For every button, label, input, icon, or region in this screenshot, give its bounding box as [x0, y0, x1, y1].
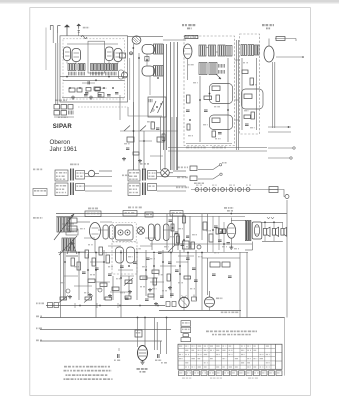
trimmer box 4	[54, 111, 60, 116]
node mc1	[133, 130, 135, 132]
svg-text:SIPAR: SIPAR	[53, 124, 73, 130]
label ECH 81 Fu	[182, 24, 184, 26]
wire vertical x79	[78, 252, 80, 300]
output transformer primary	[245, 220, 248, 240]
wire return y252	[58, 252, 248, 254]
capacitor C25	[192, 267, 196, 269]
wire vertical bus x139	[138, 53, 140, 170]
resistor R30	[140, 276, 147, 280]
resistor R14	[251, 112, 255, 119]
extra dots mid	[78, 252, 80, 254]
note line 2	[64, 370, 67, 372]
link h y262	[90, 261, 104, 263]
margin label 1	[36, 303, 38, 305]
wire em84 col1	[137, 318, 139, 348]
bus wire y317	[40, 317, 285, 319]
ground g4	[69, 295, 71, 297]
ground g7	[129, 290, 131, 292]
wire top bus right	[128, 36, 164, 38]
resistor R1b	[86, 88, 91, 92]
resistor R35	[85, 297, 92, 300]
wire link BC y100	[235, 99, 240, 101]
wire band2 l4	[157, 190, 186, 192]
terminal T1	[285, 195, 289, 199]
arrow B1	[216, 74, 221, 79]
tuning gang	[137, 227, 144, 234]
detector comp 1	[175, 234, 180, 245]
extra links mid	[62, 223, 74, 225]
cap on bottom bus 2	[115, 92, 118, 94]
el84 ground	[230, 246, 232, 248]
wire x176 down	[176, 117, 178, 170]
resistor R1c	[95, 88, 100, 92]
wire link BC y60	[235, 59, 240, 61]
tube V2 half a	[106, 47, 114, 61]
ferrite rod coil La	[57, 217, 64, 232]
node B3	[227, 109, 229, 111]
test point circle	[130, 52, 133, 55]
wire T4 link	[206, 47, 209, 49]
table outer frame	[178, 344, 282, 369]
coil unit box band1 top	[76, 171, 85, 180]
node n3	[153, 265, 155, 267]
wire vertical x137	[136, 254, 138, 300]
contact tick	[243, 187, 245, 192]
tube V3 osc	[132, 36, 141, 44]
table legend stack	[181, 321, 191, 327]
ground g8	[149, 288, 151, 290]
wire bottom bus y151	[168, 150, 267, 152]
tick bus2	[96, 303, 98, 308]
wire link BC y120	[235, 119, 240, 121]
ferrite arrow	[54, 214, 74, 240]
dial lamp La4	[221, 188, 225, 192]
label row1 end	[222, 162, 224, 164]
link h y246	[108, 245, 121, 247]
dial lamp La1	[195, 188, 199, 192]
capacitor C22	[168, 261, 172, 263]
switch bus y131	[120, 130, 178, 132]
wire el84 col	[201, 214, 203, 240]
dial lamp La3	[212, 188, 216, 192]
dashed enclosure D	[112, 242, 137, 275]
wire vert x174	[173, 42, 175, 170]
capacitor Cm1	[156, 127, 159, 129]
wire row2	[198, 178, 213, 180]
ground g6	[109, 294, 111, 296]
link h y252	[70, 251, 86, 253]
table column lines	[183, 344, 185, 369]
margin mark c	[33, 217, 36, 219]
wire grid bus A	[60, 76, 128, 78]
fuse symbol	[269, 187, 278, 193]
resistor R32	[210, 262, 220, 267]
spk marks	[267, 217, 270, 219]
loop3 comp	[244, 94, 252, 99]
transformer bars W2	[70, 183, 72, 196]
wire stub y127	[268, 126, 291, 128]
resistor R27	[88, 279, 95, 283]
wire vert x170	[170, 42, 172, 170]
dial lamp La5	[229, 188, 233, 192]
wire spk down	[252, 242, 254, 251]
wire vertical x104	[103, 250, 105, 300]
label box band2 lower	[128, 183, 140, 196]
wire AVC L	[128, 107, 162, 116]
wire to terminal	[282, 190, 285, 197]
node b1	[132, 47, 134, 49]
wire x172 down	[171, 117, 173, 170]
tube V1 pins	[66, 61, 68, 64]
wire el84 v1	[212, 216, 214, 252]
margin mark a	[33, 169, 35, 171]
wire mid right x247	[246, 252, 248, 318]
IF coil T4c	[218, 45, 225, 56]
trimmer disc 2	[125, 230, 130, 235]
coil T3b	[154, 66, 164, 77]
table row lines	[178, 347, 275, 349]
grid resistor pair	[219, 229, 222, 234]
coil box Lc	[68, 218, 77, 223]
resistor R28	[100, 283, 107, 287]
coil unit box band1 low	[76, 184, 85, 191]
wire stub y148	[268, 147, 293, 149]
coil ticks T5	[218, 64, 220, 68]
label EM 84 Fu	[137, 368, 140, 370]
ratio detector box	[148, 97, 166, 117]
resistor R33	[222, 262, 230, 267]
wire vertical x154	[153, 254, 155, 300]
svg-text:Jahr 1961: Jahr 1961	[50, 146, 78, 153]
resistor Rm1	[151, 122, 155, 129]
rectifier tube EZ80	[205, 297, 215, 307]
wire el84 top	[231, 220, 245, 222]
tube V11b	[127, 247, 135, 263]
wire bus A2	[63, 79, 125, 81]
label band2 top	[140, 163, 143, 165]
component box S1	[127, 137, 134, 142]
output transformer secondary	[249, 220, 251, 240]
ground bottom mid	[155, 302, 157, 304]
tick bus1	[74, 303, 76, 308]
speaker horn LS2	[263, 229, 266, 236]
resistor R15	[244, 115, 251, 119]
trimmer box 2	[61, 105, 67, 110]
resistor R18	[183, 216, 186, 223]
fm nodes	[146, 59, 148, 61]
label box ferrite	[66, 229, 78, 235]
wire row1	[198, 169, 213, 171]
bus wire y329	[40, 329, 171, 331]
resistor R24	[92, 258, 96, 266]
transformer bars W3	[142, 169, 144, 181]
table title	[206, 331, 209, 333]
contact tick	[217, 187, 219, 192]
wire mid right x207	[207, 258, 209, 295]
dial lamp strip	[191, 189, 282, 191]
wire vert x177	[177, 42, 179, 170]
IF coil T5b	[209, 63, 217, 75]
wire vert x166	[166, 44, 168, 150]
switch arm S1b	[140, 126, 146, 132]
wire left drop x46	[45, 28, 47, 71]
node a1	[66, 76, 68, 78]
node m2	[183, 239, 185, 241]
contact tick	[234, 187, 236, 192]
wire band2 l2	[157, 176, 186, 178]
coil comb b	[78, 72, 80, 76]
value labels scatter	[66, 224, 68, 225]
table bottom boxes	[179, 371, 185, 376]
speaker rail bottom	[262, 240, 283, 242]
link h y256b	[178, 255, 194, 257]
bottom comp row extra	[66, 289, 70, 293]
winding box Wb	[78, 64, 85, 71]
margin label 2	[36, 316, 39, 318]
ground em84	[142, 361, 144, 363]
trimmer disc 1	[118, 230, 123, 235]
label row1	[177, 167, 180, 169]
loop2 comp	[212, 118, 220, 123]
note line 1	[64, 366, 67, 368]
labels inside B	[188, 64, 190, 65]
ground gm2	[139, 159, 141, 161]
dashed enclosure B	[184, 36, 235, 146]
node bus2	[166, 317, 168, 319]
contact tick	[226, 187, 228, 192]
capacitor C30	[117, 354, 119, 358]
label EL84 above2	[227, 210, 230, 212]
ground g2	[90, 96, 92, 98]
label box ECH 81 mid	[85, 211, 101, 217]
margin label 3	[36, 328, 38, 330]
capacitor C19	[133, 261, 137, 263]
switch symbol row2	[190, 176, 197, 181]
lamp labels	[196, 185, 199, 186]
resistor R1	[69, 88, 75, 92]
resistor R16	[171, 224, 174, 231]
capacitor C8	[245, 123, 249, 125]
label box band1	[55, 170, 68, 181]
speaker LS1	[252, 222, 262, 239]
enclosure A inner dashed	[63, 39, 125, 99]
resistor Rm2	[162, 134, 165, 141]
diode D1	[151, 101, 157, 113]
tube V4b envelope	[142, 66, 155, 76]
dipole arrow 2 ticks	[78, 30, 81, 32]
antenna hook right	[58, 26, 61, 33]
resistor R38	[216, 228, 219, 234]
comp on bus 2	[172, 302, 176, 307]
wire left column x63	[63, 251, 65, 300]
ferrite rod coil Ld	[69, 238, 75, 251]
wire vertical x121	[120, 250, 122, 300]
coil unit box band2 top	[148, 171, 157, 180]
ground g5	[89, 293, 91, 295]
tube V2 dashes	[107, 51, 112, 53]
capacitor C12	[181, 243, 185, 245]
tube V10c half	[164, 224, 170, 241]
wire x144 down	[143, 131, 145, 170]
ground gm1	[123, 157, 125, 159]
node el1	[212, 229, 214, 231]
tube V1 dashes	[65, 51, 70, 53]
wire x120 down	[119, 95, 121, 120]
node B1	[209, 93, 211, 95]
IF coil T6b	[248, 45, 254, 56]
winding box Wd	[98, 64, 104, 71]
tube V10b half	[155, 224, 160, 241]
feedback loop 3	[242, 89, 264, 109]
ground g1	[72, 96, 74, 98]
wire right col down	[286, 200, 288, 318]
wire em84 col2	[144, 318, 146, 348]
contact tick	[200, 187, 202, 192]
tube V2 pins	[108, 61, 110, 64]
res label y87	[94, 87, 101, 90]
tube V5	[183, 44, 192, 59]
wire band2 l3	[157, 185, 186, 187]
diode D2	[158, 101, 164, 113]
label box af	[170, 211, 183, 217]
IF coil T4a	[199, 45, 206, 56]
wire vertical x65	[64, 252, 66, 300]
wire vertical x96	[95, 252, 97, 298]
coil T3a	[154, 44, 164, 54]
table right tall cells	[275, 352, 282, 354]
tube V11a	[116, 247, 124, 263]
label EABC above	[128, 207, 131, 209]
el84 cathode cap	[227, 242, 230, 244]
wire vert x163	[163, 44, 165, 150]
wire top right stub	[275, 38, 296, 40]
comp box bottom bus	[98, 93, 104, 98]
capacitor C18	[120, 265, 124, 267]
speaker rail top	[262, 221, 283, 223]
pickup coil P1	[88, 170, 94, 176]
tube V1 half a	[64, 47, 71, 61]
capacitor C7	[218, 132, 222, 134]
wire band1 l2	[85, 176, 112, 178]
margin mark b	[33, 189, 47, 196]
capacitor C1	[84, 94, 88, 96]
wire table right drop	[284, 318, 286, 376]
label box det	[145, 212, 153, 217]
bus wire y341	[40, 340, 162, 342]
capacitor C13	[214, 225, 218, 227]
symbol between circles	[192, 297, 197, 301]
tube V9b half	[109, 225, 114, 239]
link h y292	[110, 291, 128, 293]
component box S2	[157, 137, 164, 142]
extra comps right mid	[153, 278, 157, 285]
speaker horn LS4	[281, 229, 284, 236]
capacitor C20	[146, 257, 150, 259]
dashed tuning enclosure	[112, 223, 136, 243]
trimmer box 3	[68, 105, 73, 110]
wire v10 down	[151, 241, 153, 251]
resistor R21	[71, 258, 75, 266]
tube V2 half b	[114, 49, 122, 62]
label box B corner	[185, 35, 198, 38]
dial lamp La7	[246, 188, 250, 192]
IF coil T6c	[255, 45, 260, 55]
capacitor C11	[175, 231, 179, 233]
switch symbol row1	[190, 166, 197, 171]
label row2	[177, 177, 180, 179]
capacitor C31	[157, 354, 159, 358]
winding box We	[105, 64, 111, 71]
link h y278	[142, 277, 158, 279]
loop1 comp2	[216, 95, 220, 102]
label mid col	[147, 121, 150, 123]
node n1	[95, 269, 97, 271]
ferrite arrow 2	[59, 236, 77, 255]
wire x157 down	[156, 322, 158, 350]
resistor R25	[99, 247, 103, 255]
trimmer marks	[54, 116, 74, 118]
wire vertical x88	[87, 254, 89, 296]
trimmer box 1	[54, 105, 60, 110]
switch arm S1a	[124, 126, 130, 132]
wire band1 l1	[99, 170, 112, 172]
wire left column x60	[60, 251, 62, 306]
resistor Rm3	[133, 152, 139, 155]
cap on bottom bus 1	[85, 92, 88, 94]
wire x154 down	[154, 318, 156, 351]
component box top right	[276, 37, 285, 41]
screen box middle	[88, 41, 105, 73]
node n2	[120, 277, 122, 279]
resistor R19	[203, 222, 207, 230]
label band2 small	[122, 175, 124, 177]
capacitor C23	[175, 269, 179, 271]
margin label 4	[36, 340, 39, 342]
resistor R22	[77, 262, 81, 270]
ferrite rod coil Lb	[65, 217, 72, 232]
wire bus B left	[199, 76, 201, 142]
resistor R23	[85, 250, 89, 258]
IF coil T4d	[226, 46, 232, 57]
wire band1 l4	[85, 190, 112, 192]
wire drop x96 to bus	[95, 298, 97, 318]
wire vertical x163	[162, 250, 164, 298]
bus wire y305	[46, 305, 165, 307]
wire B bottom1	[186, 143, 232, 145]
resistor R31	[152, 270, 159, 274]
antenna hook left	[50, 26, 53, 30]
wire EZ80 drop	[209, 307, 211, 311]
wire vertical x180	[179, 250, 181, 300]
wire bus x133 mid	[133, 102, 135, 170]
wire right pair down	[272, 62, 274, 128]
link h y266b	[160, 265, 176, 267]
capacitor C21	[158, 251, 162, 253]
bus wire y213	[56, 213, 287, 215]
pilot circle A	[179, 297, 189, 307]
label ECH81 above	[88, 208, 91, 210]
trimmer ticks	[68, 111, 70, 115]
wire fm down	[149, 77, 151, 96]
resistor R20	[209, 234, 213, 242]
coil box Ld	[68, 226, 77, 231]
wire seg y156	[150, 155, 163, 157]
transformer bars W1	[70, 169, 72, 181]
coil unit box band2 low	[148, 184, 157, 191]
node a3	[95, 79, 97, 81]
wire vertical x196	[195, 250, 197, 300]
capacitor C3a	[107, 94, 111, 96]
